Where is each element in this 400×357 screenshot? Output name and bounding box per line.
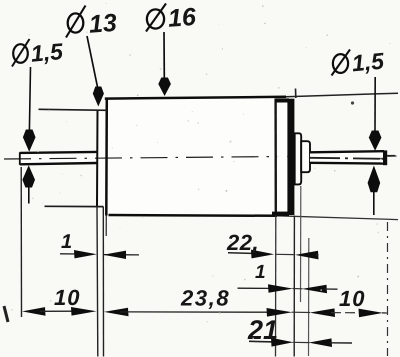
- dash-dot ext line right shaft end x=387.5: [387, 222, 389, 356]
- dark commutator bar at right end: [287, 99, 294, 215]
- label phi 16: [146, 4, 166, 32]
- rim connector bottom: [272, 212, 289, 216]
- body left edge lower stub: [105, 216, 107, 237]
- stray mark bottom-left edge: [4, 306, 8, 322]
- left cap phi13: left edge: [96, 110, 99, 207]
- ext line body right face x=276 below: [275, 216, 277, 357]
- ext line cap left x=97: [96, 207, 99, 357]
- phi1,5 left up arrow: [28, 186, 30, 204]
- phi1,5 left down arrow: [29, 67, 30, 130]
- motor body (white fill): [106, 98, 276, 215]
- bottom edge extension to right margin: [277, 216, 398, 220]
- ext line step2 right x=308.7: [308, 238, 310, 356]
- left end cap phi13 (white fill): [97, 110, 107, 206]
- white gap between body face and bar: [277, 103, 287, 211]
- label 1 (right): [255, 265, 264, 278]
- right shaft end bar: [383, 150, 387, 165]
- label 21: [248, 320, 277, 339]
- label phi 1,5 left: [12, 39, 30, 67]
- stray comma dot below right label: [351, 101, 354, 104]
- body left edge: [105, 98, 108, 216]
- left shaft outline: [20, 152, 97, 153]
- phi13 down arrow: [87, 36, 98, 87]
- center line (dash-dot axis): [4, 156, 395, 160]
- rim connector top: [276, 98, 290, 102]
- label phi 1,5 right: [332, 50, 351, 76]
- row: "22" right (y=254): [228, 252, 258, 255]
- row: "10" right (y=312.5): [292, 311, 311, 313]
- center line inside right shaft (darker): [310, 158, 383, 159]
- row: "10" left (y=311): [22, 307, 46, 316]
- row: "21" (y=342): [249, 340, 275, 343]
- phi1,5 right up arrow: [373, 191, 375, 215]
- body right face line: [274, 99, 277, 216]
- right shaft outline: [310, 152, 384, 163]
- label 10 (right): [339, 291, 364, 307]
- ext line bar right x=294.5 below: [293, 216, 295, 357]
- label 22: [227, 235, 257, 254]
- row: "1" left (y=254): [60, 253, 80, 255]
- right shaft fill: [309, 152, 384, 163]
- phi1,5 right down arrow: [374, 77, 376, 131]
- left shaft fill: [20, 153, 98, 164]
- ext line bar right x=294.5 tick above body: [295, 89, 297, 99]
- cap top edge / phi13 extension line: [39, 109, 108, 110]
- phi16 down arrow: [163, 32, 165, 78]
- label 10 (left): [54, 290, 79, 306]
- bearing boss step 2: [301, 141, 310, 172]
- ext line step1 right x=300.7: [300, 186, 302, 302]
- top edge extension to right margin: [286, 93, 398, 97]
- body top edge: [105, 97, 286, 99]
- row: "1" right (y=288): [238, 287, 273, 289]
- ext line body face left x=103: [102, 207, 104, 357]
- label phi 13: [66, 6, 86, 38]
- label 23,8: [181, 290, 229, 309]
- center line stub right of shaft: [388, 155, 397, 157]
- label 1 (left): [61, 234, 71, 248]
- bearing flange step 1: [295, 133, 302, 184]
- row: "23,8" (y=312): [104, 308, 129, 317]
- ext line left shaft end x=21: [20, 167, 22, 317]
- body bottom edge: [109, 214, 278, 217]
- cap bottom edge / phi13 extension line: [45, 205, 104, 207]
